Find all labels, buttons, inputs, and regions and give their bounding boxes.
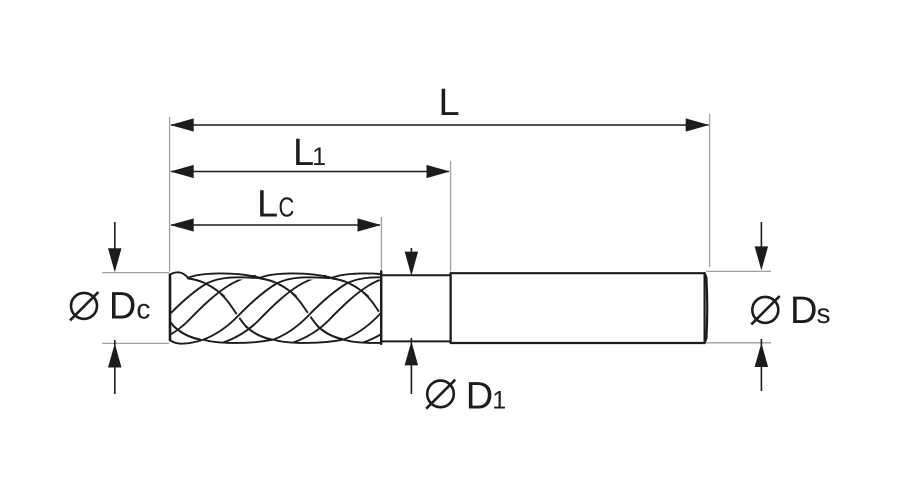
- extension line Dc top: [102, 272, 169, 274]
- extension line shank end (x=709.6): [709, 114, 711, 267]
- flute helix trailing edge 3: [260, 278, 344, 339]
- flute helix leading edge halo 3: [274, 277, 401, 339]
- arrowhead Dc bottom (points up): [108, 344, 122, 368]
- flute helix trailing edge 4: [332, 278, 416, 339]
- flute helix leading edge halo 2: [204, 277, 331, 339]
- flute top lobe 3: [260, 273, 332, 277]
- svg-text:C: C: [279, 192, 295, 223]
- extension line flute end (x=381.4): [380, 217, 382, 271]
- shank section rectangle: [451, 273, 705, 343]
- flute helix pair edge 2: [224, 276, 326, 343]
- flute dive plateau 2: [188, 278, 224, 296]
- arrowhead L1 right: [427, 165, 451, 178]
- flute top lobe 4 (clipped): [332, 273, 404, 277]
- flute dive landing tail 4: [390, 327, 416, 340]
- flute helix pair edge halo 1: [154, 276, 256, 343]
- arrow tail Ds bottom: [760, 339, 762, 391]
- arrowhead Lc left: [170, 218, 194, 231]
- arrowhead L right: [686, 118, 710, 131]
- flute bottom lobe 2: [204, 340, 274, 343]
- dimension line Lc: [171, 224, 380, 226]
- flute top lobe 2: [188, 273, 260, 277]
- arrowhead D1 top (points down): [405, 252, 419, 276]
- flute helix leading edge 2: [204, 277, 331, 339]
- flute helix leading edge 3: [274, 277, 401, 339]
- svg-text:L: L: [439, 82, 460, 124]
- diameter symbol of Dc: [71, 293, 97, 319]
- extension line Ds top: [706, 270, 771, 272]
- arrow tail Dc bottom: [114, 340, 116, 394]
- arrowhead Ds bottom (points up): [755, 343, 769, 367]
- extension line neck end (x=450.6): [450, 161, 452, 272]
- flute end boundary line: [380, 272, 382, 345]
- neck section rectangle: [381, 275, 450, 341]
- arrowhead Dc top (points down): [108, 248, 122, 272]
- dimension line L: [171, 124, 709, 126]
- arrow tail D1 bottom: [410, 338, 412, 394]
- arrow tail D1 top: [410, 248, 412, 258]
- flute dive plateau 1: [116, 278, 152, 296]
- arrow tail Ds top: [760, 222, 762, 252]
- flute dive landing tail 3: [318, 327, 344, 340]
- flute cutter left end edge: [169, 275, 172, 341]
- flute dive plateau 3: [260, 278, 296, 296]
- flute helix trailing edge 1: [116, 278, 200, 339]
- diameter symbol of Ds: [752, 297, 778, 323]
- extension line Ds bottom: [706, 342, 771, 344]
- dimension line L1: [171, 171, 449, 173]
- flute helix pair edge halo 4: [364, 276, 466, 343]
- flute helix pair edge halo 3: [294, 276, 396, 343]
- flute dive landing tail 2: [246, 327, 272, 340]
- flute helix leading edge 1: [134, 277, 261, 339]
- flute helix pair edge 1: [154, 276, 256, 343]
- flute helix pair edge 3: [294, 276, 396, 343]
- shank end chamfer arc: [705, 273, 708, 343]
- flute helix leading edge 4: [344, 277, 471, 339]
- extension line left (x=169.6): [169, 117, 171, 272]
- arrow tail Dc top: [114, 222, 116, 255]
- extension line Dc bottom: [102, 342, 169, 344]
- flute helix pair edge 4: [364, 276, 466, 343]
- arrowhead Ds top (points down): [755, 246, 769, 270]
- arrowhead L left: [170, 118, 194, 131]
- flute helix leading edge halo 4: [344, 277, 471, 339]
- flute bottom lobe 1 (clipped): [170, 340, 204, 344]
- arrowhead Lc right: [358, 218, 382, 231]
- flute bottom lobe 4 (clipped): [344, 340, 414, 343]
- arrowhead L1 left: [170, 165, 194, 178]
- arrowhead D1 bottom (points up): [405, 341, 419, 365]
- flute helix pair edge halo 2: [224, 276, 326, 343]
- svg-text:L: L: [257, 184, 278, 226]
- flute helix trailing edge 2: [188, 278, 272, 339]
- flute bottom lobe 3: [274, 340, 344, 343]
- flute top-left bump: [170, 272, 188, 278]
- flute helix leading edge halo 1: [134, 277, 261, 339]
- diameter symbol of D1: [427, 381, 454, 408]
- flute dive plateau 4: [332, 278, 368, 296]
- flute dive landing tail 1: [174, 327, 200, 340]
